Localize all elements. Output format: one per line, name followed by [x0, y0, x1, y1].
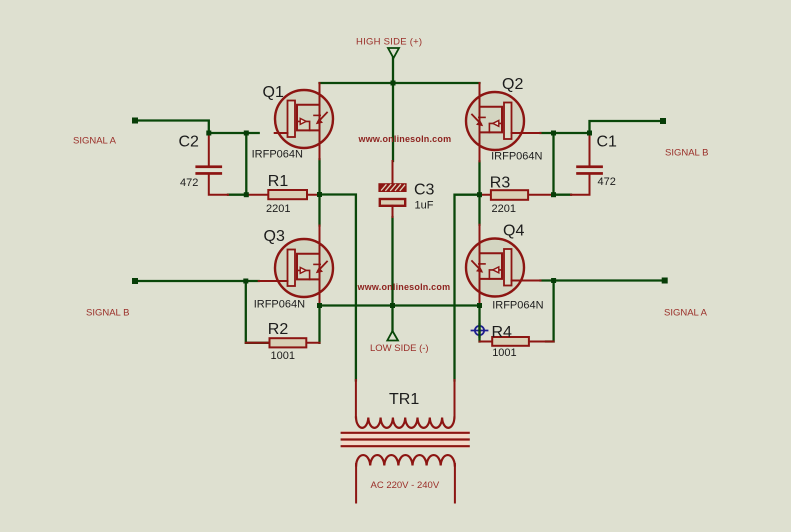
TR1 primary winding	[356, 418, 454, 428]
transistor Q3 (IRFP064N, gate left)	[259, 226, 333, 306]
svg-text:SIGNAL B: SIGNAL B	[665, 148, 708, 159]
wire: mid rail center down to LOW SIDE terminal	[391, 306, 393, 332]
transistor Q2 (IRFP064N, mirrored)	[466, 83, 541, 161]
resistor R3	[479, 190, 554, 200]
junction: Q4 gate / net / R4 right	[551, 278, 556, 283]
junction: C2 top / gate net A	[206, 131, 211, 136]
terminal square SIGNAL B bottom-left	[132, 278, 138, 284]
wire: gate net A to Q1 gate pin	[209, 132, 259, 134]
svg-text:IRFP064N: IRFP064N	[491, 151, 542, 163]
junction: C1 top / net B	[587, 131, 592, 136]
terminal square SIGNAL A top-left	[132, 118, 138, 124]
svg-text:C3: C3	[414, 182, 435, 199]
TR1 secondary pins	[356, 464, 455, 503]
terminal square SIGNAL A bottom-right	[662, 278, 668, 284]
wire: SIGNAL A top-left terminal to C2/gate corner	[135, 121, 209, 134]
wire: gate net B vertical to R3 right	[552, 133, 554, 195]
wire: Q3 drain up to R1 right junction	[318, 195, 320, 226]
power terminal LOW SIDE (-) triangle	[387, 331, 398, 341]
wire: top rail (Q1 drain to Q2 drain)	[320, 82, 480, 84]
junction: SIGNAL B bottom-left / Q3 gate	[243, 279, 248, 284]
wire: C1 bottom to R3 right junction	[554, 194, 572, 196]
junction: R3 left / Q2 source / Q4 drain	[477, 192, 482, 197]
svg-text:IRFP064N: IRFP064N	[492, 300, 543, 312]
junction: R1 left / C2 bottom	[244, 192, 249, 197]
wire: SIGNAL B top-right terminal run	[590, 121, 664, 133]
TR1 primary pins	[356, 380, 455, 418]
svg-text:472: 472	[180, 177, 198, 189]
junction: gate net A / vertical	[244, 131, 249, 136]
svg-text:SIGNAL A: SIGNAL A	[73, 136, 117, 147]
svg-text:SIGNAL A: SIGNAL A	[664, 308, 708, 319]
transformer TR1	[342, 380, 469, 503]
svg-text:C2: C2	[179, 134, 200, 151]
svg-text:C1: C1	[597, 134, 618, 151]
svg-text:R1: R1	[268, 173, 289, 190]
wire: gate net A vertical to R1 left	[245, 133, 247, 195]
power terminal HIGH SIDE (+) triangle	[388, 48, 399, 58]
junction: Q2 gate / net B	[551, 131, 556, 136]
junction: R3 right / C1 bottom	[551, 192, 556, 197]
svg-text:AC 220V - 240V: AC 220V - 240V	[371, 480, 440, 491]
capacitor C1	[571, 133, 603, 195]
wire: node B2 to transformer primary right	[455, 195, 479, 381]
svg-text:R3: R3	[490, 175, 511, 192]
junction: Q3 source / mid rail / R2	[317, 303, 322, 308]
resistor R4	[480, 337, 554, 346]
svg-text:IRFP064N: IRFP064N	[252, 149, 303, 161]
svg-text:1uF: 1uF	[415, 200, 434, 212]
resistor R2	[246, 338, 320, 347]
svg-text:IRFP064N: IRFP064N	[254, 299, 305, 311]
svg-text:www.onlinesoln.com: www.onlinesoln.com	[357, 282, 451, 292]
svg-text:Q4: Q4	[503, 223, 524, 240]
capacitor C3 (1uF, hatched top plate)	[379, 161, 406, 217]
svg-text:1001: 1001	[492, 347, 516, 359]
junction: Q4 source / mid rail / R4	[477, 303, 482, 308]
svg-text:2201: 2201	[492, 203, 516, 215]
wire: C2 bottom to R1 left junction	[228, 194, 246, 196]
wire: SIGNAL B bottom-left terminal to Q3 gate	[135, 280, 259, 282]
wire: Q4 source junction down to R4 left	[478, 306, 480, 342]
svg-text:Q3: Q3	[264, 228, 285, 245]
transistor Q1 (IRFP064N, gate left)	[275, 83, 333, 159]
svg-text:HIGH SIDE (+): HIGH SIDE (+)	[356, 37, 422, 48]
svg-text:2201: 2201	[266, 203, 290, 215]
svg-text:LOW SIDE (-): LOW SIDE (-)	[370, 343, 429, 354]
wire: Q4 drain up to R3 left junction	[478, 195, 480, 225]
wire: node A2 to transformer primary left	[320, 195, 356, 381]
wire: mid rail (Q3 source to Q4 source)	[320, 304, 480, 306]
svg-text:TR1: TR1	[389, 391, 419, 408]
svg-text:R4: R4	[492, 324, 513, 341]
wire: top rail center down to C3 top pin	[392, 83, 394, 161]
svg-text:www.onlinesoln.com: www.onlinesoln.com	[358, 134, 452, 144]
wire: gate net down to R4 right	[546, 281, 554, 342]
svg-text:Q2: Q2	[502, 76, 523, 93]
wire: Q2 source down to R3 left junction	[478, 161, 480, 194]
capacitor C2	[195, 133, 228, 195]
junction: top rail / C3	[391, 81, 396, 86]
TR1 secondary winding	[356, 455, 455, 465]
junction: mid rail / LOW SIDE / C3	[390, 303, 395, 308]
TR1 core	[342, 431, 469, 448]
svg-text:1001: 1001	[271, 350, 295, 362]
terminal square SIGNAL B top-right	[660, 118, 666, 124]
svg-text:SIGNAL B: SIGNAL B	[86, 308, 129, 319]
wire: HIGH SIDE terminal to top rail	[392, 58, 394, 83]
wire: R2 right up to Q3 source junction	[318, 306, 320, 343]
svg-text:Q1: Q1	[263, 84, 284, 101]
svg-text:R2: R2	[268, 321, 289, 338]
resistor R1	[246, 190, 319, 199]
junction: R1 right / Q1 source / Q3 drain	[317, 192, 322, 197]
wire: Q1 source down to R1 right junction	[318, 159, 320, 194]
wire: SIGNAL A bottom-right terminal to Q4 gate junction	[541, 279, 665, 281]
wire: gate net down to R2 left	[246, 281, 270, 343]
origin marker (blue crosshair) on R4 left wire	[472, 325, 488, 337]
transistor Q4 (IRFP064N, mirrored)	[466, 225, 541, 306]
wire: gate net B to Q2 gate junction	[541, 132, 590, 134]
svg-text:472: 472	[598, 176, 616, 188]
wire: C3 bottom pin to mid rail	[391, 217, 393, 306]
